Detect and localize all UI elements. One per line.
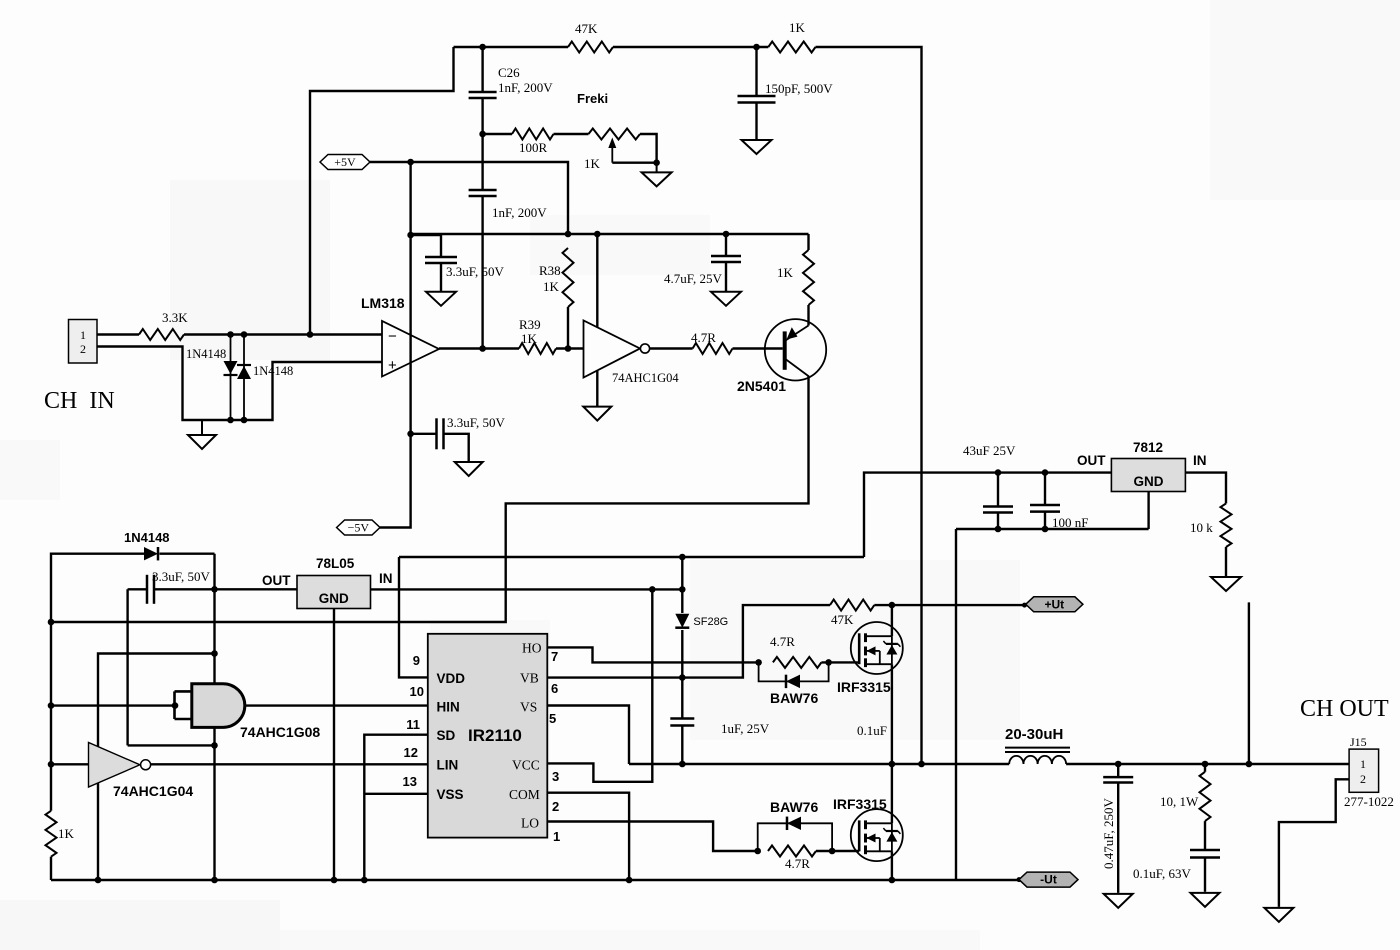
junction H2 bottom-rail — [95, 877, 102, 884]
ground zobel — [1191, 893, 1220, 907]
junction 3.3uF upper tap — [407, 232, 414, 239]
resistor 47K VB — [830, 600, 874, 611]
svg-text:IR2110: IR2110 — [468, 726, 522, 745]
wire 100R left lead — [483, 133, 512, 135]
wire VCC net — [547, 589, 652, 781]
resistor 47K feedback — [568, 42, 613, 53]
junction left rail VDD-net — [48, 619, 55, 626]
junction integrator tap — [479, 345, 486, 352]
junction upper source/lower drain — [889, 761, 896, 768]
svg-text:150pF, 500V: 150pF, 500V — [765, 81, 833, 96]
wire 100R to Freki — [554, 133, 589, 135]
junction 5V row inverter supply — [594, 231, 601, 238]
svg-text:+: + — [388, 357, 397, 374]
wire 5V row — [411, 233, 809, 235]
svg-text:LO: LO — [521, 816, 539, 831]
svg-text:CH OUT: CH OUT — [1300, 696, 1389, 722]
resistor R38 1K — [563, 248, 574, 307]
junction +5V column — [407, 159, 414, 166]
wire 10k to ground — [1225, 547, 1227, 576]
wire inverter1 supply column — [596, 234, 598, 406]
wire lower drain — [891, 764, 893, 823]
capacitor 3.3uF 50V mid — [147, 575, 154, 604]
svg-text:1N4148: 1N4148 — [186, 347, 226, 361]
svg-text:J15: J15 — [1350, 735, 1367, 749]
diode BAW76 upper bypass — [759, 662, 829, 681]
resistor 1K emitter — [803, 250, 814, 305]
svg-text:CH IN: CH IN — [44, 388, 115, 414]
svg-text:0.47uF, 250V: 0.47uF, 250V — [1101, 798, 1116, 869]
svg-text:2: 2 — [552, 799, 559, 814]
svg-text:IN: IN — [1193, 453, 1207, 468]
diode 1N4148 D1 clamp — [224, 335, 238, 421]
wire inverter1 out — [650, 347, 693, 349]
svg-text:4.7R: 4.7R — [770, 634, 795, 649]
junction feedback at minus input — [307, 331, 314, 338]
svg-text:1K: 1K — [58, 826, 75, 841]
junction 12V rail diode tap — [679, 586, 686, 593]
diode BAW76 upper — [786, 675, 800, 688]
junction top 1K/150pF node — [753, 44, 760, 51]
svg-text:−: − — [388, 328, 397, 345]
wire Freki right lead down — [640, 134, 657, 163]
resistor 1K pulldown — [46, 811, 57, 857]
wire R38 bottom lead — [567, 307, 569, 349]
wire 7812 IN lead — [1186, 473, 1227, 504]
svg-text:13: 13 — [403, 774, 417, 789]
wire 1K to right rail corner — [816, 47, 922, 764]
wire 5V column — [213, 554, 215, 880]
wire C26 to 100R node — [481, 98, 483, 189]
diode BAW76 lower bypass — [758, 823, 832, 851]
junction diode D2 bottom — [241, 417, 248, 424]
diode BAW76 lower — [787, 817, 801, 830]
ground 10k — [1211, 577, 1241, 591]
capacitor 0.47uF 250V — [1103, 777, 1133, 782]
svg-text:10, 1W: 10, 1W — [1160, 794, 1199, 809]
svg-text:R38: R38 — [539, 263, 561, 278]
svg-text:3.3K: 3.3K — [162, 310, 188, 325]
wire to lower gate — [816, 850, 859, 852]
wire output node — [629, 763, 1009, 765]
wire VSS tie — [364, 793, 428, 795]
svg-text:4.7uF, 25V: 4.7uF, 25V — [664, 271, 722, 286]
resistor 4.7R base — [693, 343, 733, 354]
resistor 4.7R lower gate — [768, 846, 816, 857]
svg-text:277-1022: 277-1022 — [1344, 794, 1394, 809]
svg-text:BAW76: BAW76 — [770, 799, 818, 815]
regulator U3 78L05 — [297, 576, 371, 609]
power flag -5V — [337, 520, 380, 535]
svg-text:VS: VS — [520, 700, 537, 715]
svg-text:1K: 1K — [789, 20, 806, 35]
wire zobel bottom lead — [1204, 858, 1206, 892]
wire 3.3uF mid right lead — [154, 588, 215, 590]
junction upper drain node — [889, 602, 896, 609]
junction 12V VCC tap — [649, 586, 656, 593]
wire J15 pin2 to ground — [1279, 779, 1349, 907]
capacitor 3.3uF 50V upper — [425, 257, 457, 263]
wire HO net — [547, 647, 758, 662]
diode SF28G — [675, 614, 689, 628]
junction VS output node — [679, 761, 686, 768]
wire VS net — [547, 706, 629, 765]
junction Freki wiper tie — [653, 159, 660, 166]
junction top-left node — [479, 44, 486, 51]
connector CH IN — [69, 320, 98, 364]
junction 5V row R38 — [565, 231, 572, 238]
svg-text:HO: HO — [522, 641, 542, 656]
svg-text:1N4148: 1N4148 — [253, 364, 293, 378]
svg-text:LM318: LM318 — [361, 295, 405, 311]
wire diode anode lead — [51, 554, 144, 811]
wire cap43uF bottom lead — [997, 513, 999, 530]
svg-text:VB: VB — [520, 671, 539, 686]
ground 3.3uF upper — [426, 292, 456, 306]
resistor 1K top — [768, 42, 815, 53]
svg-text:LIN: LIN — [437, 758, 459, 773]
capacitor 4.7uF 25V — [711, 256, 741, 262]
wire input pin1 — [97, 333, 139, 335]
resistor 10 1W zobel — [1200, 772, 1211, 821]
svg-text:SD: SD — [437, 728, 456, 743]
resistor 100R — [512, 129, 554, 140]
svg-text:3.3uF, 50V: 3.3uF, 50V — [152, 569, 210, 584]
svg-text:2N5401: 2N5401 — [737, 378, 786, 394]
wire upper drain — [891, 605, 893, 636]
wire left rail bottom — [50, 857, 52, 880]
svg-text:1: 1 — [1360, 757, 1366, 771]
wire caps bottom rail — [956, 528, 1149, 530]
wire 0.47uF top lead — [1117, 764, 1119, 777]
junction left rail AND input — [48, 702, 55, 709]
junction 3.3uF lower tap — [407, 431, 414, 438]
junction cap100nF top — [1042, 469, 1049, 476]
svg-text:100 nF: 100 nF — [1052, 515, 1088, 530]
junction diode D1 bottom — [227, 417, 234, 424]
wire 1K to emitter — [807, 305, 809, 326]
svg-text:IRF3315: IRF3315 — [837, 679, 891, 695]
wire SD tie — [364, 735, 428, 880]
junction 78L05 GND bottom — [331, 877, 338, 884]
wire 3.3uF lower stub — [411, 433, 436, 435]
op-amp U1 LM318 — [382, 321, 439, 377]
wire 3.3uF upper to ground — [440, 263, 442, 291]
junction AND input stub — [172, 702, 179, 709]
svg-text:BAW76: BAW76 — [770, 690, 818, 706]
svg-text:IRF3315: IRF3315 — [833, 796, 887, 812]
ground 150pF — [742, 140, 772, 154]
wire 150pF bottom lead — [755, 103, 757, 140]
diode 1N4148 bootstrap — [144, 547, 158, 560]
wire cap100nF top lead — [1044, 473, 1046, 505]
junction 78L05 OUT node — [211, 586, 218, 593]
svg-text:1: 1 — [80, 328, 86, 342]
capacitor 1nF 200V second — [469, 190, 497, 196]
wire LO net — [547, 822, 757, 852]
junction gate resistor left upper — [755, 659, 762, 666]
wire 4.7uF stub — [725, 234, 727, 256]
wire 47K to +Ut node — [874, 604, 892, 606]
wire 3.3uF mid down column — [126, 589, 128, 745]
ground inverter1 — [583, 407, 611, 421]
wire H1 upper loop — [98, 654, 215, 881]
wire 12V to VDD — [399, 557, 428, 677]
wire inverter2 out to LIN — [151, 763, 428, 765]
wire wiper to right end — [612, 161, 656, 163]
capacitor 43uF 25V — [983, 507, 1013, 513]
svg-text:COM: COM — [509, 787, 540, 802]
wire +5V/-5V vertical — [380, 162, 411, 528]
wire 7812 GND lead — [1147, 492, 1149, 530]
power flag +Ut — [1026, 597, 1083, 612]
svg-text:+5V: +5V — [334, 155, 356, 169]
svg-text:74AHC1G04: 74AHC1G04 — [113, 783, 193, 799]
wire upper source — [891, 664, 893, 764]
resistor 10k — [1221, 504, 1232, 548]
wire 3.3uF upper stub — [411, 235, 441, 257]
svg-text:1K: 1K — [584, 156, 601, 171]
wire +5V to column — [370, 162, 568, 234]
junction sense output node — [1246, 761, 1253, 768]
svg-text:VDD: VDD — [437, 671, 466, 686]
AND gate U4 74AHC1G08 — [175, 684, 245, 728]
wire 3.3K to opamp minus — [184, 333, 382, 335]
svg-text:OUT: OUT — [262, 573, 291, 588]
junction 5V column bottom — [211, 877, 218, 884]
svg-text:Freki: Freki — [577, 91, 608, 106]
svg-text:47K: 47K — [575, 21, 598, 36]
wire 4.7uF to ground — [725, 262, 727, 291]
capacitor 100nF — [1030, 505, 1060, 512]
wire collector down — [51, 376, 809, 622]
junction 0.47uF tap — [1115, 761, 1122, 768]
svg-text:SF28G: SF28G — [693, 616, 728, 628]
svg-text:2: 2 — [1360, 772, 1366, 786]
wire H2 lower loop — [128, 744, 215, 746]
svg-text:7: 7 — [551, 649, 558, 664]
wire inverter2 input — [51, 763, 89, 765]
wire COM net — [547, 793, 629, 880]
junction R38 bottom node — [565, 345, 572, 352]
svg-text:1nF, 200V: 1nF, 200V — [498, 80, 553, 95]
svg-text:11: 11 — [406, 717, 420, 732]
resistor 4.7R upper gate — [773, 657, 822, 668]
wire 1uF to VS node — [681, 726, 683, 765]
svg-text:2: 2 — [80, 342, 86, 356]
junction H2 tie — [211, 742, 218, 749]
junction diode D2 top — [241, 331, 248, 338]
junction cap43uF bottom — [995, 526, 1002, 533]
junction diode D1 top — [227, 331, 234, 338]
junction feedback rail bottom — [918, 761, 925, 768]
junction 12V bootstrap tap — [679, 554, 686, 561]
wire +Ut lead — [892, 604, 1026, 606]
svg-text:0.1uF, 63V: 0.1uF, 63V — [1133, 866, 1191, 881]
wire top feedback rail — [454, 46, 569, 48]
potentiometer Freki 1K — [589, 129, 641, 140]
svg-text:0.1uF: 0.1uF — [857, 723, 887, 738]
junction 5V row 4.7uF — [723, 231, 730, 238]
svg-text:3.3uF, 50V: 3.3uF, 50V — [446, 264, 504, 279]
svg-text:OUT: OUT — [1077, 453, 1106, 468]
junction cap43uF top — [995, 469, 1002, 476]
svg-text:4.7R: 4.7R — [691, 330, 716, 345]
wire 3.3uF lower to ground — [444, 434, 469, 462]
wire 5V row corner to 1K — [807, 234, 809, 250]
svg-text:12: 12 — [404, 745, 418, 760]
svg-text:1: 1 — [553, 829, 560, 844]
IC U6 IR2110 — [428, 634, 548, 838]
wire AND output to HIN — [246, 704, 428, 706]
svg-text:GND: GND — [1134, 474, 1164, 489]
junction lower source rail — [889, 877, 896, 884]
junction SD/VSS bottom — [361, 877, 368, 884]
svg-text:1K: 1K — [543, 279, 560, 294]
svg-text:−5V: −5V — [348, 521, 370, 535]
inductor L1 20-30uH — [1005, 748, 1070, 764]
ground input clamp — [188, 420, 216, 449]
wire left rail — [160, 553, 215, 555]
wire 78L05 GND lead — [333, 609, 335, 881]
wire 3.3uF mid left lead — [128, 588, 146, 590]
resistor 3.3K input — [139, 329, 184, 340]
wire 150pF top lead — [755, 47, 757, 95]
svg-text:78L05: 78L05 — [316, 556, 355, 571]
wire 0.47uF bottom lead — [1117, 783, 1119, 893]
ground 4.7uF — [711, 292, 741, 306]
svg-text:47K: 47K — [831, 612, 854, 627]
wire cap100nF bottom lead — [1044, 512, 1046, 529]
svg-text:10 k: 10 k — [1190, 520, 1213, 535]
svg-text:1K: 1K — [521, 331, 538, 346]
capacitor C26 1nF 200V — [469, 92, 497, 98]
capacitor 1uF 25V bootstrap — [670, 719, 694, 726]
svg-text:6: 6 — [551, 681, 558, 696]
junction zobel tap — [1202, 761, 1209, 768]
wire bottom rail -Ut — [51, 879, 1019, 881]
svg-text:VSS: VSS — [437, 787, 464, 802]
wire 78L05 IN 12V rail — [371, 588, 683, 590]
transistor Q2 IRF3315 upper — [851, 622, 903, 674]
junction cap100nF bottom — [1042, 526, 1049, 533]
svg-text:HIN: HIN — [437, 700, 460, 715]
svg-text:10: 10 — [410, 684, 424, 699]
svg-text:VCC: VCC — [512, 758, 540, 773]
resistor R39 1K — [519, 343, 556, 354]
junction gate resistor right upper — [825, 659, 832, 666]
wire AND input — [51, 704, 175, 706]
capacitor 0.1uF 63V — [1190, 850, 1220, 858]
transistor Q1 2N5401 — [765, 319, 826, 380]
junction 100R node — [479, 131, 486, 138]
wire zobel mid lead — [1204, 821, 1206, 849]
svg-text:74AHC1G04: 74AHC1G04 — [612, 371, 679, 385]
connector J15 277-1022 — [1349, 749, 1379, 792]
wire 4.7R to base — [733, 347, 783, 349]
capacitor 150pF 500V — [738, 96, 776, 103]
junction -Ut tip — [1017, 877, 1022, 882]
wire to upper gate — [821, 661, 859, 663]
junction COM bottom — [626, 877, 633, 884]
junction +Ut tip — [1022, 603, 1027, 608]
ground 3.3uF lower — [455, 462, 483, 476]
potentiometer wiper arrow — [608, 138, 616, 163]
svg-text:43uF 25V: 43uF 25V — [963, 443, 1016, 458]
svg-text:9: 9 — [413, 653, 420, 668]
wire C26 top lead — [481, 47, 483, 91]
power flag +5V — [320, 155, 370, 170]
wire VB net — [547, 605, 830, 678]
wire input pin2 route — [97, 347, 382, 421]
junction gate resistor right lower — [829, 848, 836, 855]
svg-text:74AHC1G08: 74AHC1G08 — [240, 724, 320, 740]
svg-text:C26: C26 — [498, 65, 520, 80]
wire 78L05 OUT lead — [215, 588, 298, 590]
wire 12V top rail — [399, 556, 864, 558]
svg-text:-Ut: -Ut — [1040, 873, 1057, 887]
transistor Q3 IRF3315 lower — [851, 809, 903, 861]
junction gate resistor left lower — [754, 848, 761, 855]
junction left rail inverter input — [48, 761, 55, 768]
wire top rail to 1K — [613, 46, 768, 48]
svg-text:GND: GND — [319, 591, 349, 606]
svg-text:R39: R39 — [519, 317, 541, 332]
wire cap43uF top lead — [997, 473, 999, 506]
junction VB bootstrap node — [679, 674, 686, 681]
junction H1 tie — [211, 650, 218, 657]
inverter U2 74AHC1G04 — [584, 321, 650, 378]
wire R39 to inverter1 — [556, 347, 584, 349]
svg-text:+Ut: +Ut — [1044, 597, 1064, 611]
wire zobel top lead — [1204, 764, 1206, 772]
svg-text:1nF, 200V: 1nF, 200V — [492, 205, 547, 220]
wire CH OUT sense — [1248, 602, 1250, 764]
svg-text:1K: 1K — [777, 265, 794, 280]
svg-text:1uF, 25V: 1uF, 25V — [721, 721, 770, 736]
diode 1N4148 D2 clamp — [237, 335, 251, 421]
svg-text:4.7R: 4.7R — [785, 856, 810, 871]
ground Freki — [642, 163, 672, 187]
wire 12V corner — [864, 473, 1111, 557]
svg-text:3.3uF, 50V: 3.3uF, 50V — [447, 415, 505, 430]
capacitor 3.3uF 50V lower — [437, 418, 444, 449]
ground J15 — [1264, 908, 1293, 922]
svg-text:7812: 7812 — [1133, 440, 1163, 455]
svg-text:20-30uH: 20-30uH — [1005, 726, 1063, 743]
wire bootstrap column — [681, 557, 683, 613]
wire output node right — [1066, 763, 1349, 765]
regulator U7 7812 — [1111, 459, 1185, 492]
svg-text:3: 3 — [552, 769, 559, 784]
wire gnd-ref column — [955, 529, 957, 880]
wire opamp output — [439, 347, 519, 349]
svg-text:5: 5 — [549, 711, 556, 726]
svg-text:1N4148: 1N4148 — [124, 530, 170, 545]
power flag -Ut — [1019, 872, 1078, 887]
svg-text:IN: IN — [379, 571, 393, 586]
inverter U5 74AHC1G04 — [89, 743, 151, 788]
ground 0.47uF — [1104, 894, 1133, 908]
wire feedback down-left — [310, 47, 454, 335]
wire bootstrap to VB — [681, 630, 683, 718]
wire 1nF to opamp output — [481, 196, 483, 349]
wire lower source — [891, 851, 893, 880]
svg-text:100R: 100R — [519, 140, 548, 155]
